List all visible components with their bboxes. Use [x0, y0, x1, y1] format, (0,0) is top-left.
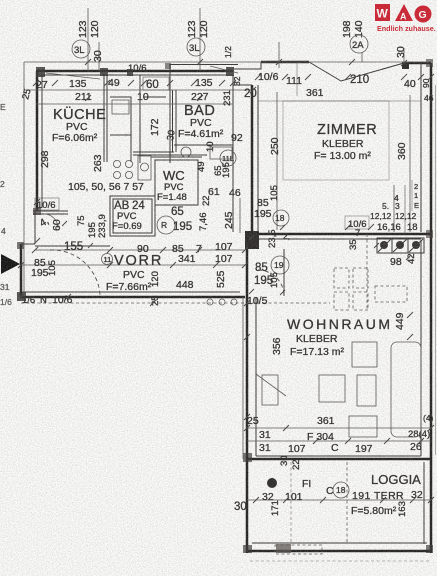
- circle 11 before VORR: [102, 254, 113, 265]
- dim: ZIMMER interior faint row: [258, 100, 421, 102]
- wall: left outer (KÜCHE): [36, 71, 39, 211]
- circle 2A: [350, 35, 368, 53]
- black dot LOGGIA: [267, 478, 277, 488]
- wall: right outer double: [430, 63, 433, 553]
- furniture: chair bottom: [349, 416, 377, 437]
- sink in KÜCHE area: [112, 100, 129, 114]
- diagonal wardrobe lower-left: [256, 374, 286, 396]
- window sill V ZIMMER: [309, 62, 404, 81]
- circle 3L right: [187, 38, 205, 56]
- bath fixtures in BAD: [181, 147, 191, 157]
- dim: ZIMMER right column: [409, 95, 411, 232]
- dim: 245 leader: [239, 198, 241, 233]
- wall: BAD left: [172, 90, 174, 152]
- small circles bottom row: [207, 299, 213, 305]
- label 10/6 left: [35, 198, 59, 210]
- wall: lower-left vertical: [246, 249, 249, 553]
- vertical dashed door line nische: [283, 249, 285, 296]
- dim: lower block left: [242, 297, 244, 459]
- dim line: left vertical: [23, 62, 25, 297]
- wall: LOGGIA bottom: [247, 550, 431, 553]
- dim: ZIMMER 250 leader: [276, 92, 278, 230]
- circle R195: [157, 216, 175, 234]
- dim row: VORR: [35, 249, 245, 251]
- wall: left entry outer: [20, 244, 23, 297]
- circle 3L left: [72, 40, 90, 58]
- furniture: chair top: [352, 342, 377, 367]
- dim: WOHNRAUM rows: [247, 427, 431, 429]
- dim leaders top: [87, 8, 89, 71]
- dim line: under top wall: [24, 89, 252, 91]
- dim: outer right faint: [435, 85, 437, 455]
- kitchen sink box: [138, 156, 151, 180]
- wall: VORR top boundary: [35, 245, 110, 247]
- dim: LOGGIA row: [247, 499, 431, 501]
- corner dot top right: [402, 62, 409, 69]
- furniture: table: [357, 375, 376, 406]
- wall: top notch over shaft: [170, 65, 238, 76]
- wall: WOHNRAUM bottom / LOGGIA top: [247, 458, 431, 461]
- dimension tick slashes: [18, 59, 434, 503]
- wall: VORR bottom: [21, 296, 245, 299]
- LOGGIA planter dark end: [276, 544, 291, 553]
- wall: ZIMMER top with window V: [261, 61, 309, 64]
- furniture: chair left: [319, 375, 345, 402]
- wardrobe grid WOHNRAUM top: [334, 268, 349, 288]
- wall: left below kitchen: [34, 211, 36, 244]
- wall: WC box: [155, 160, 198, 205]
- wall: top step to ZIMMER: [233, 62, 261, 69]
- dim row: bottom of top block: [21, 302, 330, 304]
- logo A triangle: [395, 4, 413, 21]
- wall: BAD right / ZIMMER left: [232, 75, 234, 232]
- wall: BAD bottom: [174, 144, 233, 146]
- wall: AB box: [110, 196, 155, 236]
- wall: kitchen bottom step: [33, 210, 68, 212]
- circle 11L: [220, 150, 236, 166]
- entry door arc: [50, 250, 100, 295]
- wall: shaft between KÜCHE and BAD: [106, 75, 108, 162]
- scan edge fragments left: [0, 102, 12, 307]
- stove burners: [113, 160, 120, 167]
- wall: middle horizontal below ZIMMER: [245, 233, 431, 236]
- ZIMMER inner faint rect: [283, 101, 389, 180]
- door arc nische: [258, 270, 284, 295]
- wall: entry jut: [21, 243, 35, 245]
- LOGGIA planter box: [275, 545, 322, 554]
- wall: top outer left (KÜCHE/BAD): [36, 70, 233, 73]
- LOGGIA inner dashes: [346, 462, 348, 543]
- entrance arrow: [1, 254, 20, 274]
- dim line: top: [24, 61, 431, 63]
- wall: solid block at VORR/WOHNRAUM corner: [245, 231, 259, 249]
- logo W square: [375, 4, 390, 21]
- furniture: couch right: [391, 342, 421, 437]
- logo G circle: [415, 6, 432, 23]
- shaft hatched cells: [377, 238, 392, 253]
- kitchen counter rect: [110, 97, 131, 135]
